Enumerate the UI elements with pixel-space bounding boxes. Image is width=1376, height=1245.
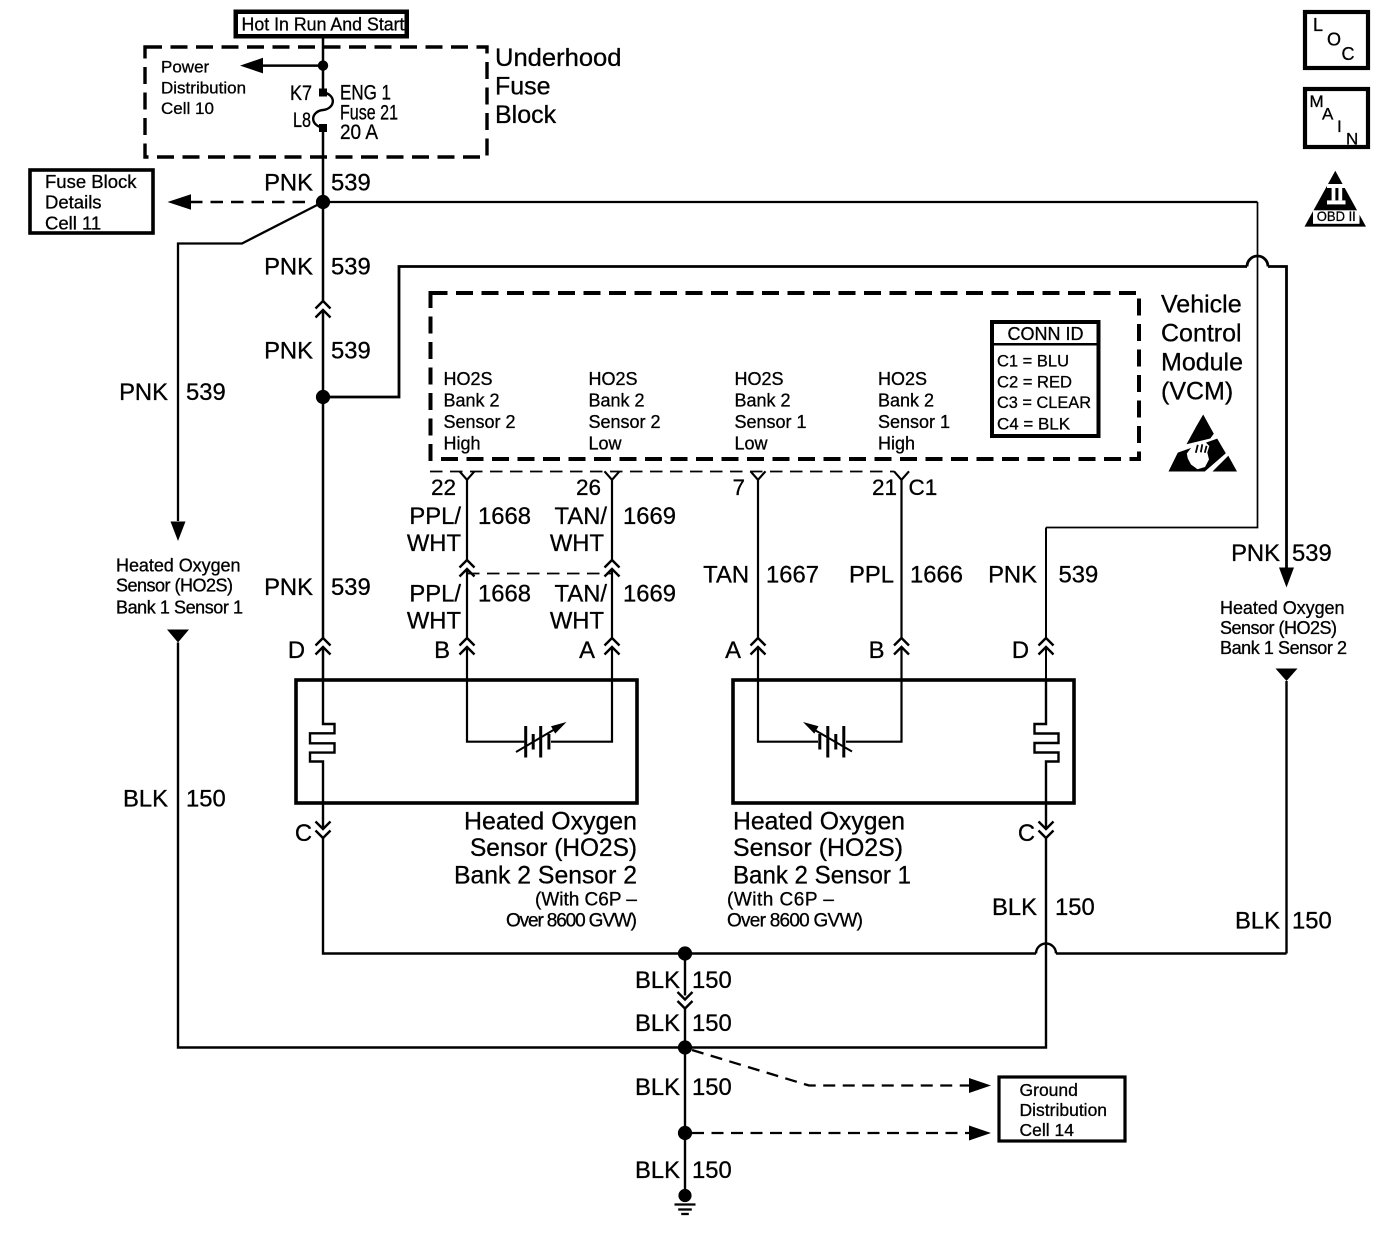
svg-text:150: 150 — [186, 786, 226, 813]
svg-text:150: 150 — [692, 967, 732, 994]
svg-text:High: High — [878, 434, 915, 454]
svg-text:1669: 1669 — [623, 581, 676, 608]
svg-text:L8: L8 — [293, 109, 311, 132]
svg-text:21: 21 — [872, 475, 897, 500]
svg-text:WHT: WHT — [407, 530, 461, 557]
svg-text:OBD II: OBD II — [1317, 208, 1356, 224]
svg-text:WHT: WHT — [407, 608, 461, 635]
svg-text:BLK: BLK — [635, 1010, 680, 1037]
svg-text:Details: Details — [45, 192, 102, 213]
svg-text:PNK: PNK — [264, 338, 313, 365]
svg-text:Heated Oxygen: Heated Oxygen — [116, 556, 241, 576]
svg-text:WHT: WHT — [550, 530, 604, 557]
svg-text:Bank 2: Bank 2 — [589, 391, 645, 411]
svg-text:Hot In Run And Start: Hot In Run And Start — [242, 14, 405, 35]
svg-text:539: 539 — [186, 379, 226, 406]
svg-text:C2 = RED: C2 = RED — [997, 373, 1072, 392]
svg-text:Heated Oxygen: Heated Oxygen — [464, 808, 637, 836]
svg-text:150: 150 — [692, 1157, 732, 1184]
svg-text:Bank 2 Sensor 1: Bank 2 Sensor 1 — [733, 862, 911, 890]
svg-text:7: 7 — [732, 475, 745, 500]
svg-text:Distribution: Distribution — [161, 78, 246, 97]
svg-text:PNK: PNK — [264, 574, 313, 601]
svg-text:539: 539 — [331, 254, 371, 281]
svg-text:20 A: 20 A — [340, 121, 378, 144]
svg-text:O: O — [1327, 30, 1341, 50]
svg-text:Heated Oxygen: Heated Oxygen — [1220, 598, 1345, 618]
svg-text:PPL/: PPL/ — [409, 581, 461, 608]
svg-text:Sensor (HO2S): Sensor (HO2S) — [116, 576, 233, 596]
svg-text:Block: Block — [495, 101, 557, 129]
svg-text:C1: C1 — [909, 475, 938, 500]
svg-text:26: 26 — [576, 475, 601, 500]
svg-text:PNK: PNK — [1231, 540, 1280, 567]
svg-text:K7: K7 — [290, 82, 312, 105]
svg-text:PPL/: PPL/ — [409, 503, 461, 530]
svg-text:Bank 2 Sensor 2: Bank 2 Sensor 2 — [454, 862, 637, 890]
svg-text:Cell 11: Cell 11 — [45, 212, 101, 233]
svg-text:WHT: WHT — [550, 608, 604, 635]
svg-text:TAN: TAN — [703, 562, 749, 589]
svg-text:150: 150 — [692, 1074, 732, 1101]
svg-text:1668: 1668 — [478, 581, 531, 608]
svg-text:Bank 1 Sensor 1: Bank 1 Sensor 1 — [116, 598, 243, 618]
svg-text:D: D — [288, 637, 305, 664]
svg-text:C: C — [295, 820, 312, 847]
svg-text:Vehicle: Vehicle — [1161, 291, 1242, 319]
svg-text:Sensor 2: Sensor 2 — [444, 412, 516, 432]
svg-text:BLK: BLK — [992, 894, 1037, 921]
svg-text:150: 150 — [1292, 908, 1332, 935]
svg-text:N: N — [1346, 130, 1358, 149]
svg-text:539: 539 — [331, 170, 371, 197]
svg-text:BLK: BLK — [123, 786, 168, 813]
svg-text:539: 539 — [1292, 540, 1332, 567]
svg-text:BLK: BLK — [635, 1074, 680, 1101]
svg-text:1667: 1667 — [766, 562, 819, 589]
svg-text:150: 150 — [692, 1010, 732, 1037]
svg-text:BLK: BLK — [635, 1157, 680, 1184]
svg-text:1668: 1668 — [478, 503, 531, 530]
svg-text:Sensor (HO2S): Sensor (HO2S) — [1220, 618, 1337, 638]
svg-text:539: 539 — [331, 574, 371, 601]
svg-text:BLK: BLK — [635, 967, 680, 994]
svg-text:A: A — [725, 637, 741, 664]
svg-text:1669: 1669 — [623, 503, 676, 530]
svg-text:Fuse: Fuse — [495, 72, 551, 100]
svg-text:Distribution: Distribution — [1020, 1100, 1108, 1120]
svg-text:Low: Low — [589, 434, 623, 454]
svg-text:(With C6P –: (With C6P – — [535, 890, 637, 911]
svg-text:HO2S: HO2S — [878, 369, 927, 389]
svg-text:22: 22 — [431, 475, 456, 500]
svg-text:Module: Module — [1161, 349, 1243, 377]
svg-text:Cell 14: Cell 14 — [1020, 1120, 1075, 1140]
svg-text:CONN ID: CONN ID — [1008, 324, 1084, 344]
svg-text:PNK: PNK — [988, 562, 1037, 589]
svg-text:Cell 10: Cell 10 — [161, 99, 214, 118]
svg-text:(With C6P –: (With C6P – — [727, 890, 834, 911]
svg-text:High: High — [444, 434, 481, 454]
svg-text:Sensor 2: Sensor 2 — [589, 412, 661, 432]
svg-text:TAN/: TAN/ — [555, 581, 608, 608]
svg-text:HO2S: HO2S — [589, 369, 638, 389]
svg-text:Sensor 1: Sensor 1 — [878, 412, 950, 432]
svg-text:I: I — [1337, 117, 1342, 136]
svg-text:Power: Power — [161, 58, 210, 77]
svg-text:TAN/: TAN/ — [555, 503, 608, 530]
svg-text:C3 = CLEAR: C3 = CLEAR — [997, 393, 1091, 412]
svg-text:(VCM): (VCM) — [1161, 378, 1233, 406]
svg-text:Control: Control — [1161, 320, 1242, 348]
svg-text:150: 150 — [1055, 894, 1095, 921]
svg-text:Ground: Ground — [1020, 1080, 1078, 1100]
svg-text:Bank 2: Bank 2 — [444, 391, 500, 411]
svg-text:B: B — [869, 637, 885, 664]
svg-text:Fuse Block: Fuse Block — [45, 171, 137, 192]
svg-text:PNK: PNK — [119, 379, 168, 406]
svg-text:Heated Oxygen: Heated Oxygen — [733, 808, 905, 836]
svg-text:L: L — [1313, 15, 1323, 35]
svg-text:B: B — [434, 637, 450, 664]
svg-text:Bank 2: Bank 2 — [735, 391, 791, 411]
svg-text:HO2S: HO2S — [735, 369, 784, 389]
svg-text:C: C — [1018, 820, 1035, 847]
svg-text:Underhood: Underhood — [495, 44, 622, 72]
svg-text:C: C — [1342, 44, 1355, 64]
svg-text:HO2S: HO2S — [444, 369, 493, 389]
svg-text:PPL: PPL — [849, 562, 894, 589]
svg-text:C4 = BLK: C4 = BLK — [997, 415, 1071, 434]
svg-text:539: 539 — [1059, 562, 1099, 589]
svg-text:BLK: BLK — [1235, 908, 1280, 935]
svg-text:Over 8600 GVW): Over 8600 GVW) — [727, 911, 863, 932]
svg-text:Low: Low — [735, 434, 769, 454]
svg-text:Sensor 1: Sensor 1 — [735, 412, 807, 432]
svg-text:A: A — [579, 637, 595, 664]
svg-text:Sensor (HO2S): Sensor (HO2S) — [733, 834, 903, 862]
svg-text:Over 8600 GVW): Over 8600 GVW) — [506, 911, 637, 932]
svg-text:D: D — [1012, 637, 1029, 664]
svg-text:PNK: PNK — [264, 254, 313, 281]
svg-text:Bank 1 Sensor 2: Bank 1 Sensor 2 — [1220, 638, 1347, 658]
svg-text:1666: 1666 — [910, 562, 963, 589]
svg-text:PNK: PNK — [264, 170, 313, 197]
svg-text:A: A — [1322, 105, 1334, 124]
svg-text:Bank 2: Bank 2 — [878, 391, 934, 411]
svg-text:Sensor (HO2S): Sensor (HO2S) — [470, 834, 637, 862]
svg-text:C1 = BLU: C1 = BLU — [997, 352, 1069, 371]
svg-text:539: 539 — [331, 338, 371, 365]
